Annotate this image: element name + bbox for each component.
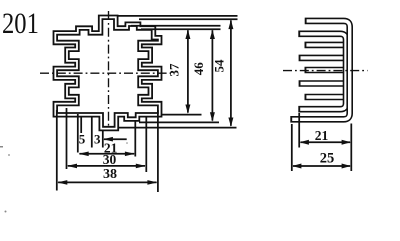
svg-text:54: 54 <box>212 59 227 73</box>
svg-text:25: 25 <box>320 150 335 166</box>
svg-text:5: 5 <box>79 132 86 147</box>
svg-text:201: 201 <box>2 7 39 40</box>
svg-text:38: 38 <box>103 167 117 182</box>
svg-text:3: 3 <box>94 132 101 147</box>
svg-text:46: 46 <box>191 62 206 76</box>
svg-text:30: 30 <box>103 152 117 167</box>
svg-text:21: 21 <box>315 128 329 143</box>
svg-text:37: 37 <box>167 63 182 77</box>
